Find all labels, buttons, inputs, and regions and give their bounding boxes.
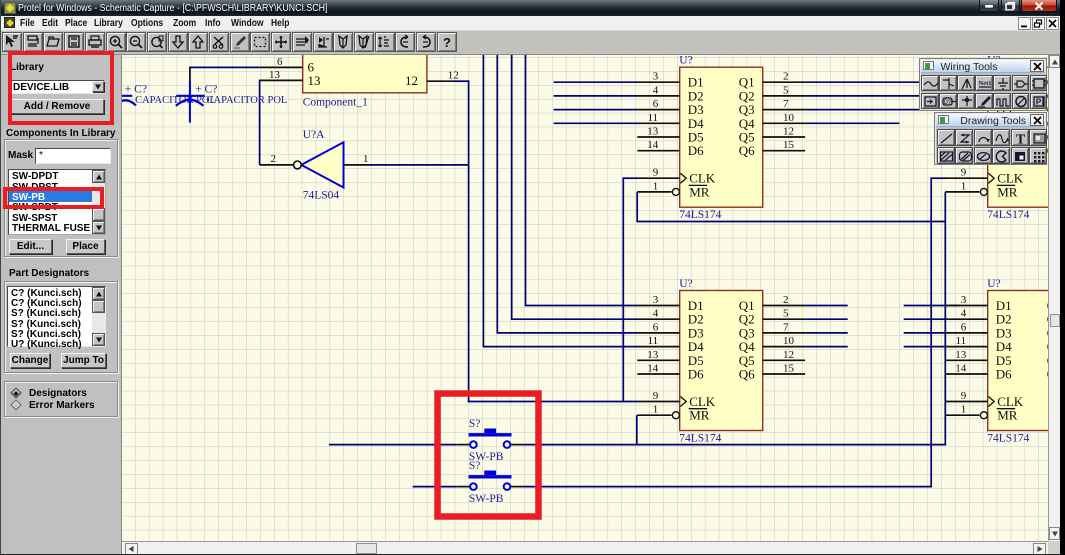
wire gate input pin1 (344, 164, 372, 166)
svg-text:Net1: Net1 (978, 80, 991, 87)
wire bus D to chip3 D2 (512, 55, 638, 319)
svg-text:9: 9 (961, 167, 967, 179)
wire chip1 D1-D4 feeds (554, 81, 638, 83)
svg-text:+ C?: + C? (125, 84, 147, 96)
svg-text:9: 9 (961, 390, 967, 402)
svg-text:S?: S? (469, 418, 481, 430)
svg-text:74LS174: 74LS174 (679, 209, 721, 221)
IC U? 74LS174 (bottom right) (945, 278, 1065, 445)
wire chip1 Q1-Q4 (805, 81, 921, 83)
svg-text:15: 15 (783, 363, 795, 375)
wire pin6 of Component_1 (190, 66, 259, 68)
IC U? 74LS174 (top right) (945, 55, 1065, 222)
svg-text:11: 11 (648, 112, 659, 124)
svg-text:12: 12 (405, 73, 418, 88)
svg-text:Q6: Q6 (739, 367, 755, 382)
svg-text:Component_1: Component_1 (303, 97, 368, 109)
svg-text:1: 1 (961, 404, 967, 416)
svg-text:U?: U? (679, 55, 692, 67)
svg-text:13: 13 (269, 69, 281, 81)
svg-text:13: 13 (647, 126, 659, 138)
svg-text:74LS174: 74LS174 (679, 433, 721, 445)
wire node A vertical (pin12 / gate input / chip3 CLK) (468, 80, 470, 402)
wire chip3 CLK feed (468, 401, 638, 403)
svg-text:13: 13 (308, 73, 321, 88)
svg-text:+ C?: + C? (195, 84, 217, 96)
svg-text:MR: MR (997, 408, 1018, 423)
svg-text:P: P (1036, 98, 1042, 107)
svg-text:10: 10 (783, 335, 795, 347)
svg-text:7: 7 (783, 98, 789, 110)
svg-text:14: 14 (647, 139, 659, 151)
svg-text:D6: D6 (688, 367, 704, 382)
wire chip1 MR down and across (636, 192, 638, 222)
svg-text:S?: S? (469, 460, 481, 472)
svg-text:U?: U? (679, 278, 692, 290)
svg-text:U?A: U?A (303, 129, 325, 141)
wire net A (MR row through switch S1) (329, 444, 456, 446)
svg-text:U?: U? (987, 278, 1000, 290)
svg-text:3: 3 (653, 71, 659, 83)
svg-text:12: 12 (448, 70, 459, 82)
capacitor C2 CAPACITOR POL (176, 81, 288, 123)
svg-text:CAPACITOR POL: CAPACITOR POL (207, 95, 288, 106)
svg-text:74LS04: 74LS04 (303, 190, 340, 202)
component U? Component_1 box (303, 40, 427, 109)
svg-text:6: 6 (277, 56, 283, 68)
svg-text:6: 6 (653, 321, 659, 333)
svg-text:MR: MR (689, 408, 710, 423)
wire bus C to chip3 D3 (497, 55, 637, 333)
svg-text:D6: D6 (996, 367, 1012, 382)
svg-text:4: 4 (653, 308, 659, 320)
svg-text:5: 5 (783, 308, 789, 320)
wire net B (CLK row through switch S2) (413, 486, 457, 488)
op-amp/inverter U?A 74LS04 (294, 129, 344, 202)
svg-text:MR: MR (689, 184, 710, 199)
svg-text:9: 9 (653, 167, 659, 179)
wire chip3 Q1-Q4 (805, 305, 848, 307)
svg-text:13: 13 (647, 349, 659, 361)
wire pin12 to node A vertical (427, 80, 455, 82)
wire chip4 D1-D4 feeds (904, 305, 960, 307)
svg-text:11: 11 (648, 335, 659, 347)
svg-text:1: 1 (653, 404, 659, 416)
wire gate output pin2 (260, 164, 294, 166)
svg-text:74LS174: 74LS174 (987, 209, 1029, 221)
annotation red box around switches (438, 394, 539, 517)
svg-text:?: ? (443, 35, 451, 50)
svg-text:2: 2 (783, 294, 789, 306)
svg-text:10: 10 (783, 112, 795, 124)
svg-text:9: 9 (653, 390, 659, 402)
svg-text:3: 3 (961, 294, 967, 306)
svg-text:1: 1 (961, 180, 967, 192)
svg-text:7: 7 (783, 321, 789, 333)
wire chip2 CLK / net B (931, 177, 947, 179)
svg-text:1: 1 (653, 180, 659, 192)
switch S1 SW-PB (469, 418, 512, 463)
svg-text:13: 13 (955, 349, 967, 361)
wire bus E to chip3 D1 (526, 55, 638, 306)
svg-text:15: 15 (783, 139, 795, 151)
wire chip3 MR down (636, 415, 638, 445)
svg-text:5: 5 (783, 84, 789, 96)
svg-text:6: 6 (653, 98, 659, 110)
svg-text:D6: D6 (688, 143, 704, 158)
svg-text:2: 2 (271, 153, 277, 165)
svg-text:SW-PB: SW-PB (469, 493, 504, 505)
svg-text:D?: D? (943, 100, 951, 106)
svg-text:T: T (1016, 132, 1026, 146)
svg-text:12: 12 (783, 126, 794, 138)
svg-text:6: 6 (961, 321, 967, 333)
switch S2 SW-PB (469, 460, 512, 505)
svg-text:14: 14 (955, 363, 967, 375)
svg-text:MR: MR (997, 184, 1018, 199)
svg-text:12: 12 (783, 349, 794, 361)
IC U? 74LS174 (bottom middle) (637, 278, 805, 445)
svg-text:1: 1 (363, 153, 369, 165)
wire chip2/chip4 MR vertical (944, 192, 946, 446)
wire pin13 to U?A output (259, 80, 261, 165)
svg-text:3: 3 (653, 294, 659, 306)
svg-text:4: 4 (961, 308, 967, 320)
svg-text:14: 14 (647, 363, 659, 375)
capacitor C1 CAPACITOR POL (left edge, clipped) (113, 84, 216, 107)
wire bus B to chip3 D4 (483, 55, 637, 347)
IC U? 74LS174 (top middle) (637, 55, 805, 222)
svg-text:2: 2 (783, 71, 789, 83)
svg-text:11: 11 (956, 335, 967, 347)
svg-text:74LS174: 74LS174 (987, 433, 1029, 445)
svg-text:Q6: Q6 (739, 143, 755, 158)
wire chip1 CLK (623, 177, 638, 179)
svg-text:4: 4 (653, 84, 659, 96)
